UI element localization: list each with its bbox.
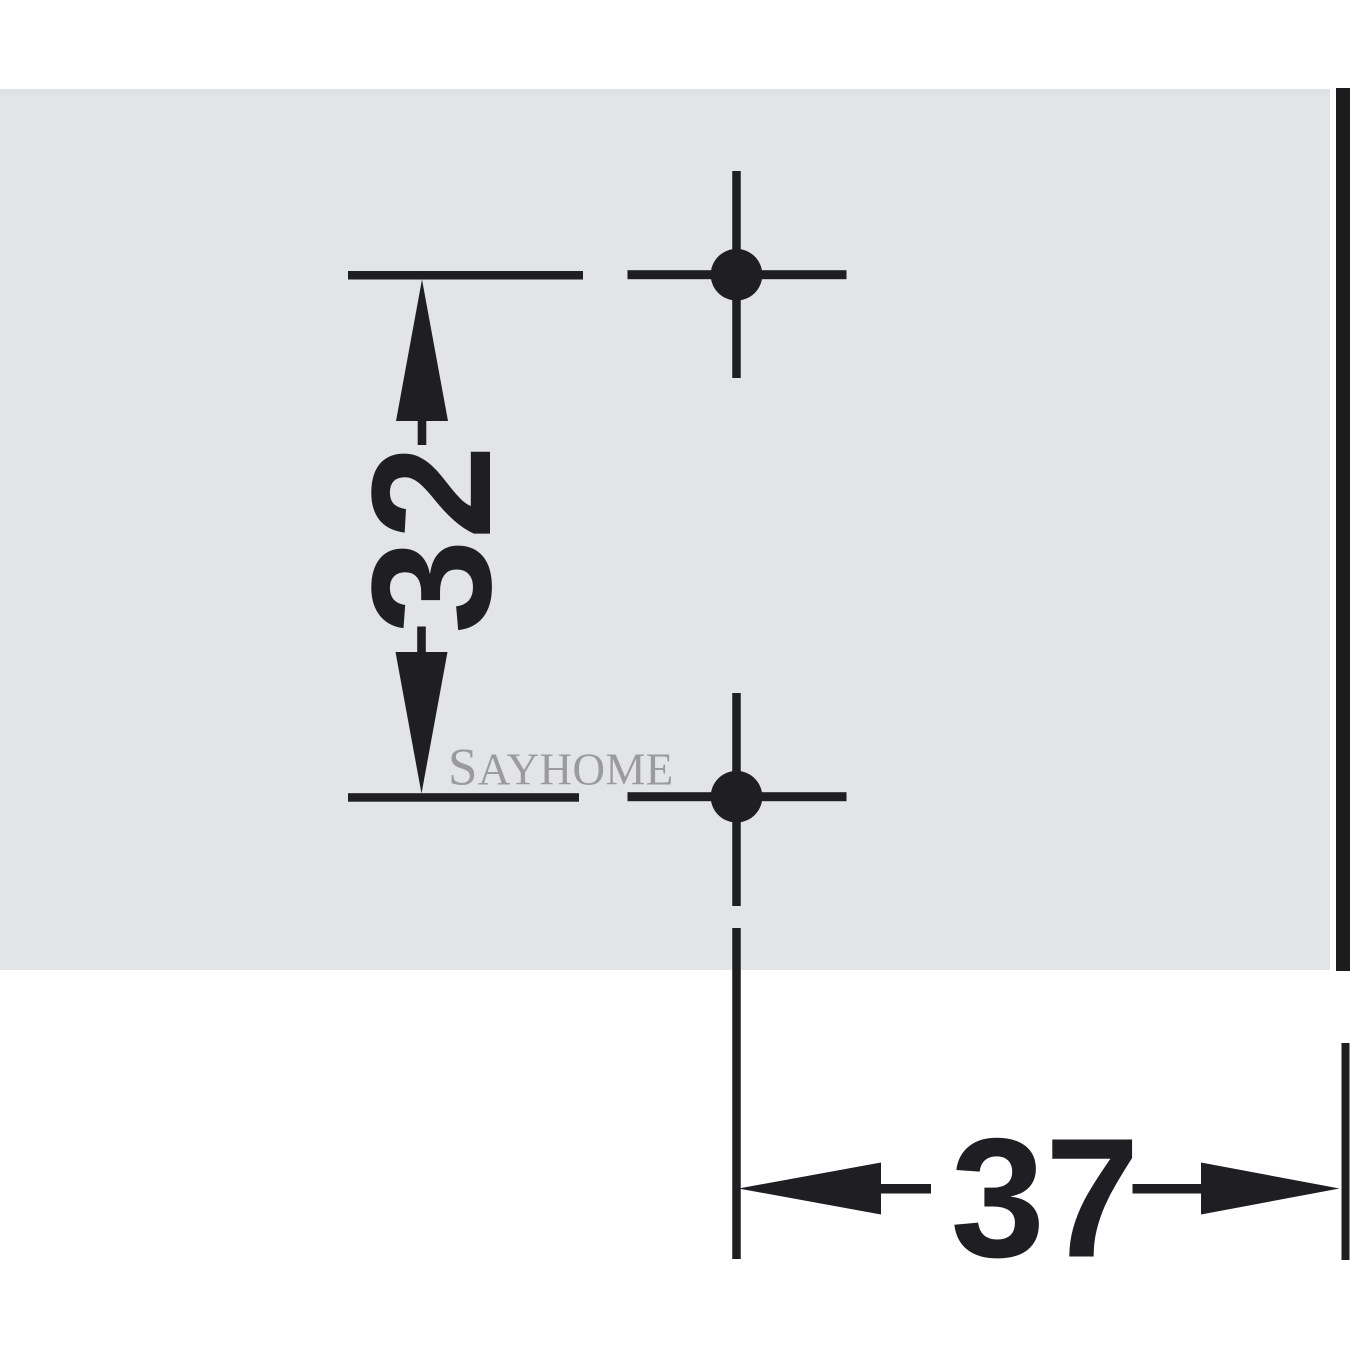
side panel edge bar [1336,88,1350,971]
dim37 right boundary line [1342,1043,1350,1260]
svg-text:37: 37 [950,1104,1139,1294]
bottom cross dot [711,771,763,823]
bottom cross vertical dash below [732,928,741,1259]
dim37 left arrow [739,1163,882,1215]
dim32 down arrow [396,652,448,794]
top cross horizontal line [628,270,847,279]
svg-text:SAYHOME: SAYHOME [448,739,674,797]
dim32 top extension line [348,271,583,280]
panel (gray board) [0,89,1330,970]
dim32 up arrow [396,280,448,422]
top cross vertical line [732,171,741,378]
top cross dot [711,249,763,301]
dim32 bottom extension line [348,793,579,802]
svg-text:32: 32 [337,445,527,634]
bottom cross horizontal line [628,792,847,801]
panel top edge band [0,89,1330,94]
dim37 right arrow [1133,1184,1202,1194]
bottom cross vertical line upper [732,693,741,906]
